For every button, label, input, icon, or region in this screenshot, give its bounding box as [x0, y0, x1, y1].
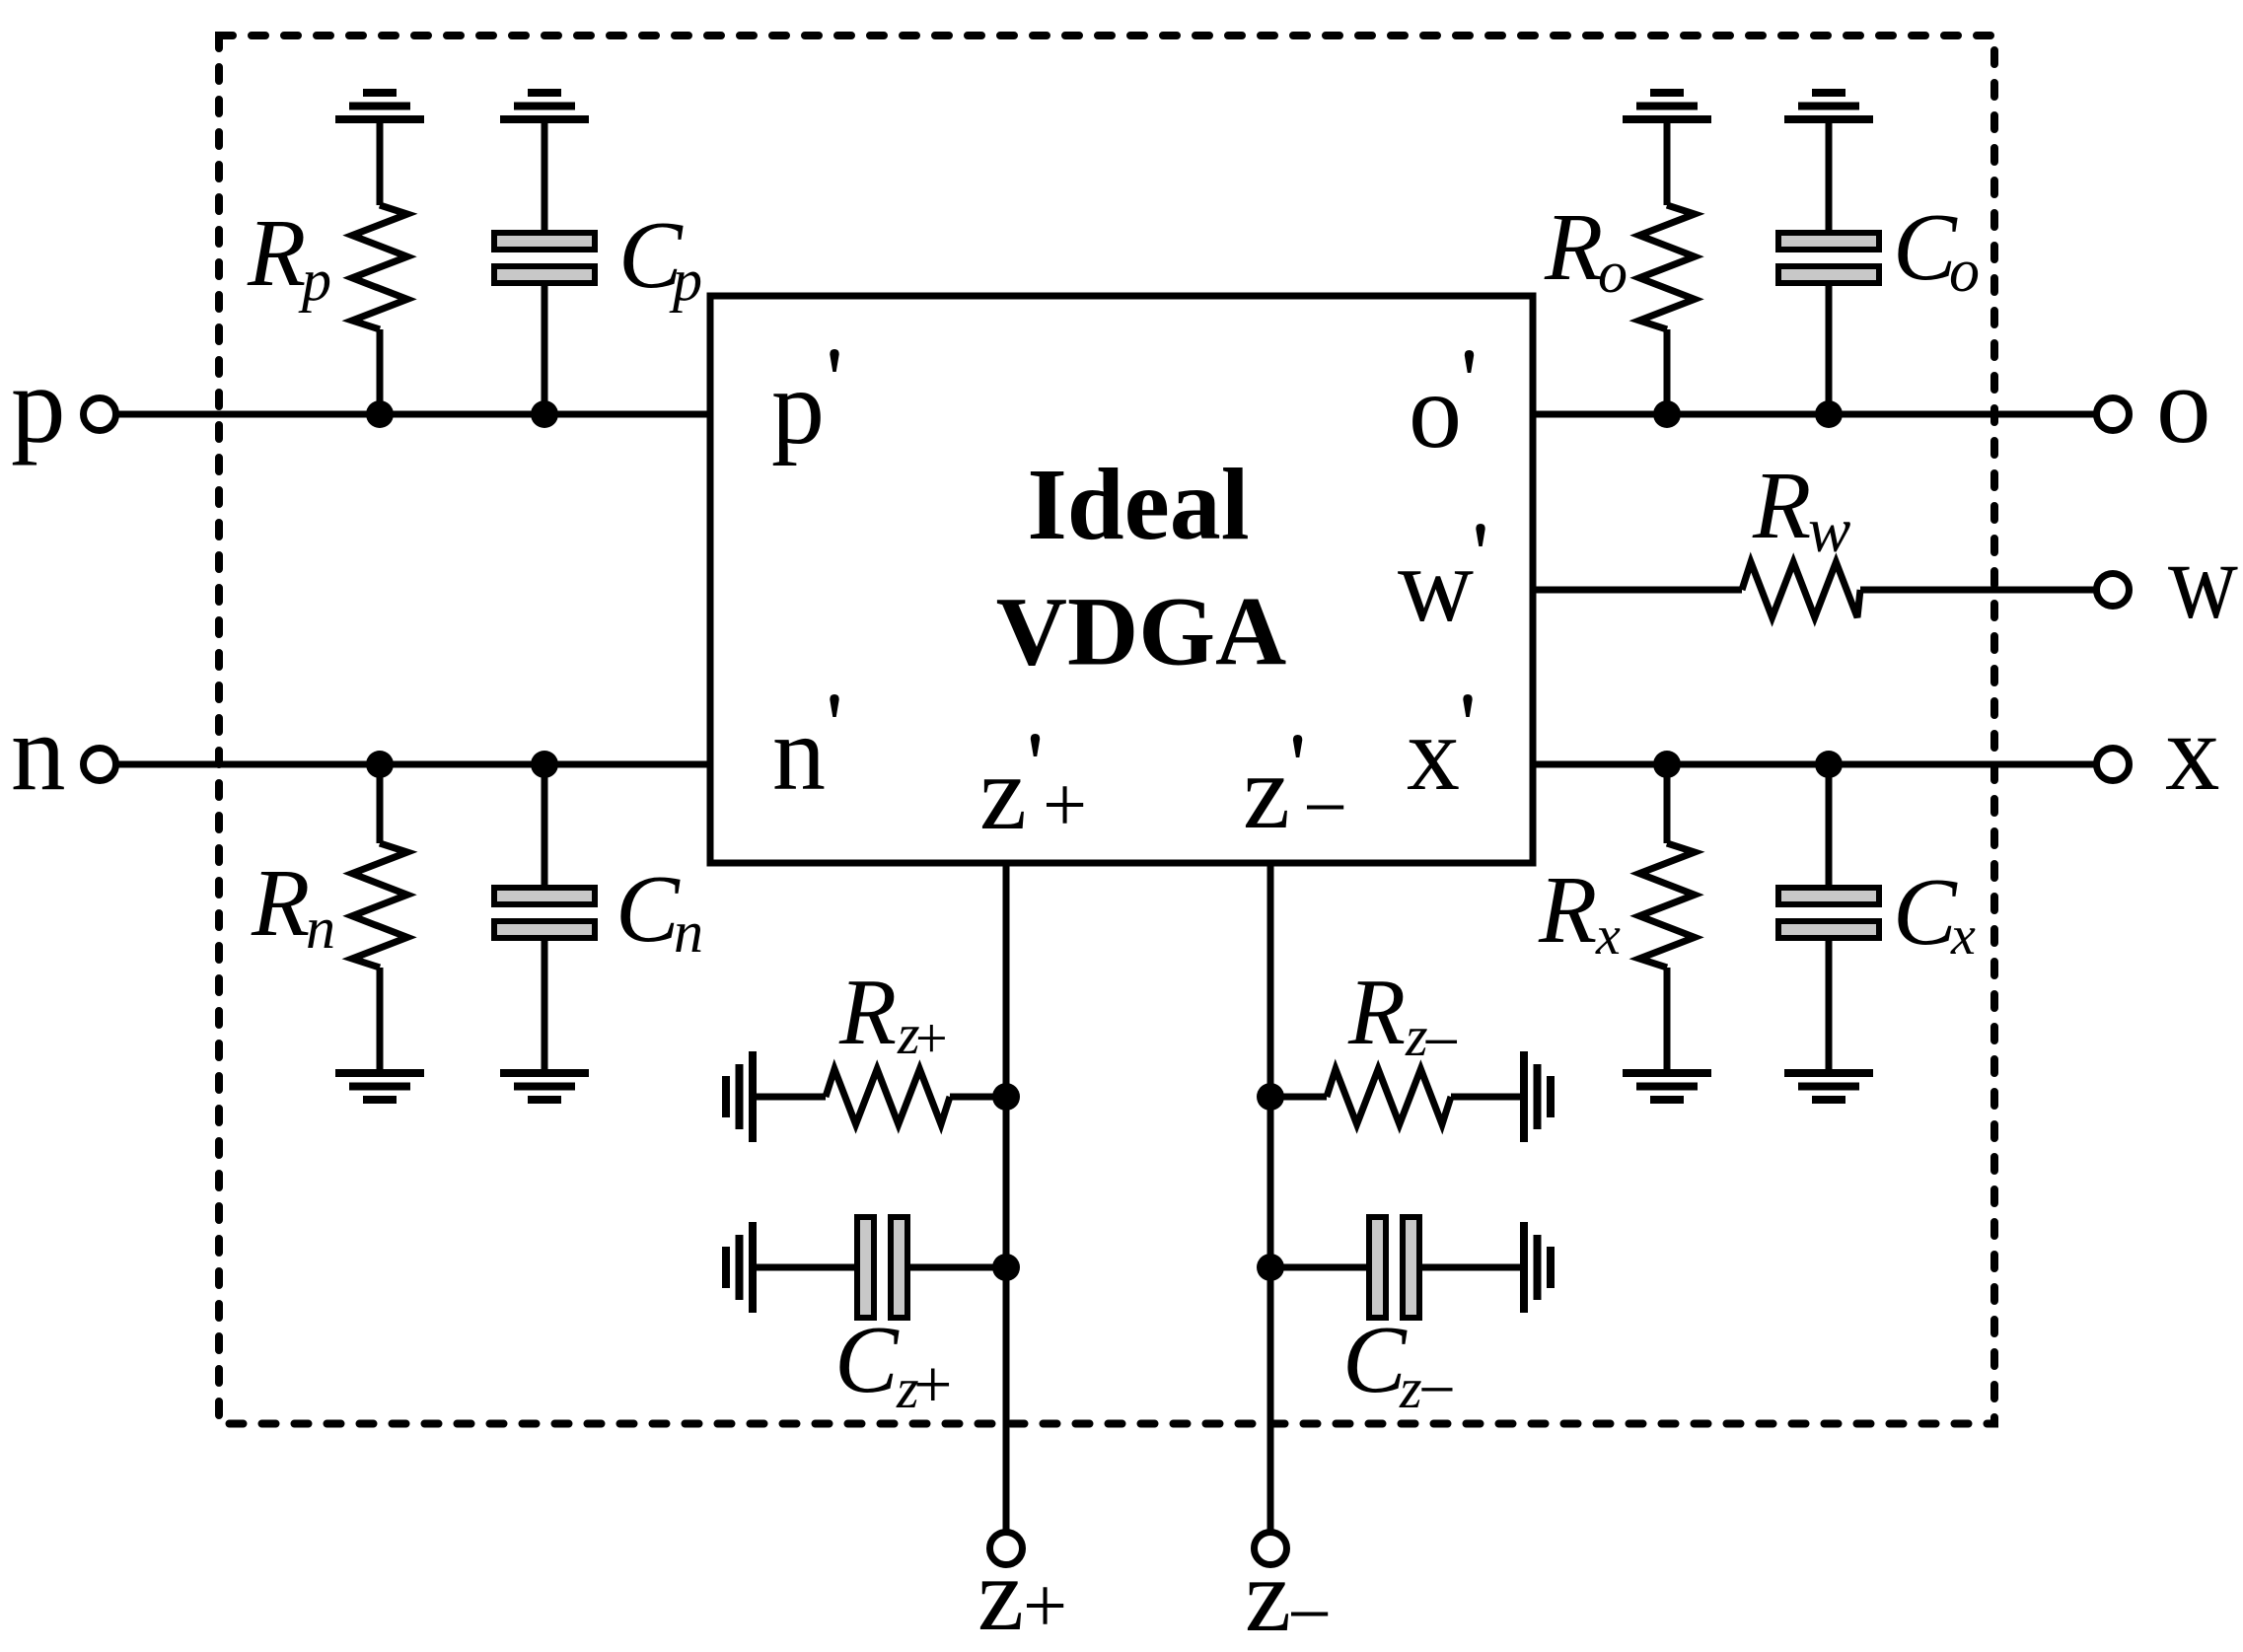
label Co	[1893, 194, 1980, 305]
capacitor Cx	[1778, 764, 1879, 1069]
svg-text:n: n	[306, 896, 335, 961]
svg-text:x: x	[1950, 905, 1976, 967]
svg-text:Ideal: Ideal	[1027, 448, 1249, 561]
port label p'	[771, 349, 839, 467]
svg-text:+: +	[1023, 1563, 1067, 1650]
terminal p	[84, 398, 116, 431]
svg-text:n: n	[674, 899, 703, 965]
svg-text:R: R	[251, 850, 310, 956]
ground (above Ro)	[1623, 93, 1711, 119]
ground (left of Cz+)	[726, 1222, 753, 1313]
label Rz-	[1347, 960, 1460, 1079]
svg-text:+: +	[913, 1347, 952, 1423]
label Cn	[615, 856, 703, 965]
node dot Cz-/z-wire	[1257, 1254, 1284, 1281]
label Rp	[247, 200, 331, 313]
label Cz-	[1342, 1307, 1456, 1426]
node dot Ro/o-wire	[1653, 400, 1681, 428]
wire box z'+ down to z+ terminal	[1003, 863, 1010, 1534]
svg-text:n: n	[11, 692, 66, 814]
svg-text:w: w	[2168, 521, 2238, 642]
node dot Cz+/z+wire	[992, 1254, 1020, 1281]
node dot Rz+/z+wire	[992, 1083, 1020, 1111]
svg-text:C: C	[834, 1307, 900, 1412]
svg-text:x: x	[2165, 692, 2220, 814]
svg-text:x: x	[1595, 905, 1621, 967]
terminal z-	[1255, 1533, 1287, 1565]
resistor Rw	[1742, 562, 1860, 617]
capacitor Co	[1778, 119, 1879, 414]
node dot Rp/p-wire	[366, 400, 394, 428]
node dot Rz-/z-wire	[1257, 1083, 1284, 1111]
label Rw	[1752, 453, 1850, 566]
terminal z+	[990, 1533, 1023, 1565]
svg-text:w: w	[1808, 495, 1850, 566]
label Ro	[1544, 194, 1628, 305]
svg-text:−: −	[1418, 1353, 1456, 1426]
svg-text:z: z	[979, 735, 1027, 852]
node dot Cn/n-wire	[531, 751, 558, 778]
svg-text:o: o	[1409, 353, 1462, 470]
port label w'	[1398, 524, 1485, 644]
node dot Co/o-wire	[1815, 400, 1843, 428]
label Cx	[1893, 859, 1976, 967]
label Rx	[1538, 857, 1621, 967]
resistor Rz+	[753, 1069, 1006, 1124]
capacitor Cz+	[753, 1217, 1006, 1318]
ground (below Cx)	[1784, 1073, 1873, 1100]
resistor Rx	[1639, 764, 1695, 1069]
svg-text:+: +	[915, 1006, 948, 1070]
svg-text:−: −	[1422, 1004, 1460, 1079]
svg-text:w: w	[1398, 527, 1474, 644]
svg-text:R: R	[1538, 857, 1597, 963]
wire n terminal to box	[118, 761, 710, 768]
node dot Rn/n-wire	[366, 751, 394, 778]
svg-text:C: C	[1893, 859, 1958, 965]
label Ideal VDGA	[996, 448, 1286, 686]
ground (below Rn)	[335, 1073, 424, 1100]
port label x'	[1407, 694, 1473, 813]
ground (above Co)	[1784, 93, 1873, 119]
svg-text:o: o	[2156, 345, 2211, 467]
ground (below Cn)	[500, 1073, 589, 1100]
svg-text:z: z	[1243, 734, 1290, 851]
label Cp	[618, 202, 702, 313]
label z-	[1245, 1538, 1332, 1652]
resistor Ro	[1639, 119, 1695, 414]
capacitor Cp	[494, 119, 595, 414]
ground (right of Rz-)	[1524, 1051, 1551, 1142]
port label z'-	[1243, 734, 1347, 851]
resistor Rn	[352, 764, 407, 1069]
svg-text:x: x	[1407, 695, 1460, 813]
ground (below Rx)	[1623, 1073, 1711, 1100]
port label n'	[772, 694, 839, 813]
label z+	[977, 1537, 1067, 1652]
svg-text:o: o	[1949, 238, 1980, 305]
label Rn	[251, 850, 335, 961]
svg-text:n: n	[772, 695, 826, 813]
svg-text:R: R	[1347, 960, 1406, 1064]
wire box o' to o terminal	[1533, 411, 2094, 418]
node dot Rx/x-wire	[1653, 751, 1681, 778]
terminal o	[2097, 398, 2130, 431]
svg-text:−: −	[1287, 1571, 1332, 1652]
wire box w' to w terminal (through Rw)	[1533, 587, 2094, 594]
dashed boundary of non-ideal VDGA macromodel	[219, 36, 1994, 1424]
wire box x' to x terminal	[1533, 761, 2094, 768]
node dot Cx/x-wire	[1815, 751, 1843, 778]
ground (right of Cz-)	[1524, 1222, 1551, 1313]
node dot Cp/p-wire	[531, 400, 558, 428]
svg-text:R: R	[1752, 453, 1811, 558]
svg-text:p: p	[669, 248, 702, 313]
op-amp block U1: Ideal VDGA box	[710, 296, 1533, 863]
svg-text:R: R	[838, 960, 897, 1064]
resistor Rz-	[1270, 1069, 1524, 1124]
svg-text:R: R	[1544, 194, 1603, 300]
capacitor Cz-	[1270, 1217, 1524, 1318]
svg-text:−: −	[1303, 764, 1347, 851]
port label o'	[1409, 350, 1474, 470]
svg-text:p: p	[771, 349, 825, 467]
svg-text:C: C	[615, 856, 681, 962]
svg-text:C: C	[1342, 1307, 1408, 1412]
svg-text:z: z	[1245, 1538, 1291, 1652]
resistor Rp	[352, 119, 407, 414]
label Rz+	[838, 960, 948, 1070]
terminal n	[84, 749, 116, 781]
terminal x	[2097, 749, 2130, 781]
svg-text:R: R	[247, 200, 306, 306]
ground (above Cp)	[500, 93, 589, 119]
ground (left of Rz+)	[726, 1051, 753, 1142]
wire box z'- down to z- terminal	[1267, 863, 1274, 1534]
wire p terminal to box	[118, 411, 710, 418]
capacitor Cn	[494, 764, 595, 1069]
svg-text:p: p	[298, 248, 331, 313]
svg-text:VDGA: VDGA	[996, 577, 1286, 686]
svg-text:p: p	[11, 345, 66, 467]
svg-text:+: +	[1043, 762, 1087, 849]
terminal w	[2097, 574, 2130, 607]
ground (above Rp)	[335, 93, 424, 119]
port label z'+	[979, 734, 1087, 852]
label Cz+	[834, 1307, 952, 1423]
svg-text:z: z	[977, 1537, 1024, 1652]
svg-text:o: o	[1598, 240, 1628, 305]
